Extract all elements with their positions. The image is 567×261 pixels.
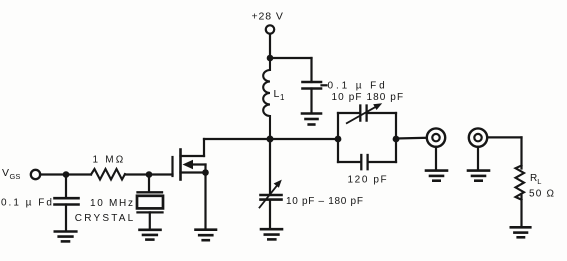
- wire bypass cap to ground: [310, 89, 312, 114]
- wire supply stem: [269, 34, 271, 58]
- node source junction: [202, 169, 209, 176]
- capacitor C1 0.1 uFd input: [1, 175, 79, 232]
- node junction J3 network left: [335, 136, 342, 143]
- capacitor C2 0.1 uFd bypass: [303, 82, 322, 89]
- label C2 value 0.1 uFd: [322, 81, 388, 92]
- gate bar: [171, 157, 173, 176]
- node +28V supply terminal: [252, 11, 284, 34]
- svg-text:V: V: [2, 167, 9, 179]
- crystal Y1 10 MHz: [75, 175, 163, 230]
- svg-text:L: L: [537, 177, 541, 186]
- svg-text:1 MΩ: 1 MΩ: [93, 155, 126, 166]
- wire source to ground: [204, 173, 206, 230]
- label VGS input: [2, 167, 20, 181]
- capacitor C5 120 pF: [338, 155, 396, 186]
- ground under connector J6: [468, 171, 489, 181]
- svg-text:10 pF 180 pF: 10 pF 180 pF: [332, 92, 405, 103]
- resistor R1 1 Mohm: [91, 155, 125, 180]
- source stub: [181, 171, 206, 173]
- ground under C3: [261, 229, 282, 239]
- capacitor C4 trimmer 10 pF / 180 pF: [332, 92, 405, 123]
- ground under crystal: [140, 230, 161, 240]
- connector J5 output jack: [427, 128, 445, 170]
- transistor Q1 MOSFET: [173, 139, 206, 180]
- wire main bus drain to cap network: [204, 138, 338, 140]
- svg-text:GS: GS: [10, 172, 21, 181]
- ground under connector J5: [426, 171, 447, 181]
- svg-text:1: 1: [280, 93, 285, 102]
- channel bar: [179, 150, 182, 180]
- resistor RL 50 ohm: [516, 166, 556, 227]
- svg-text:0.1 µ Fd: 0.1 µ Fd: [1, 198, 54, 209]
- svg-text:0.1 µ Fd: 0.1 µ Fd: [328, 81, 388, 92]
- wire bypass cap drop: [310, 58, 312, 82]
- ground under Q1 source: [196, 230, 217, 241]
- wire network right rail: [395, 113, 397, 162]
- inductor L1: [263, 58, 285, 139]
- ground under RL: [511, 227, 531, 237]
- capacitor C3 variable 10-180 pF: [260, 139, 364, 229]
- drain stub: [181, 155, 205, 157]
- svg-text:CRYSTAL: CRYSTAL: [75, 213, 136, 224]
- node junction J2 main node: [267, 136, 274, 143]
- wire load connector to RL: [487, 137, 521, 168]
- node VGS input terminal: [31, 170, 40, 179]
- wire network left rail: [337, 113, 339, 162]
- drain riser: [203, 139, 205, 156]
- svg-text:120 pF: 120 pF: [348, 175, 389, 186]
- svg-text:L: L: [274, 88, 280, 100]
- connector J6 load plug: [469, 128, 487, 170]
- svg-text:R: R: [530, 173, 537, 184]
- source-body tie: [204, 165, 206, 173]
- wire input to resistor: [40, 173, 91, 175]
- body arrowhead: [183, 160, 194, 169]
- wire J4 to output connector: [396, 137, 427, 140]
- svg-text:10 pF – 180 pF: 10 pF – 180 pF: [286, 196, 364, 207]
- body arrow line: [190, 163, 206, 165]
- node junction J4 network right: [393, 136, 400, 143]
- svg-text:50 Ω: 50 Ω: [529, 189, 555, 200]
- node junction crystal: [146, 171, 153, 178]
- ground under C2: [302, 114, 321, 125]
- svg-text:10 MHz: 10 MHz: [90, 198, 135, 209]
- ground under C1: [55, 232, 77, 242]
- svg-text:+28 V: +28 V: [252, 11, 284, 23]
- node junction input cap: [63, 171, 70, 178]
- node junction J1: [267, 55, 274, 62]
- wire J1 to bypass cap: [270, 57, 312, 59]
- wire resistor to gate: [125, 173, 173, 175]
